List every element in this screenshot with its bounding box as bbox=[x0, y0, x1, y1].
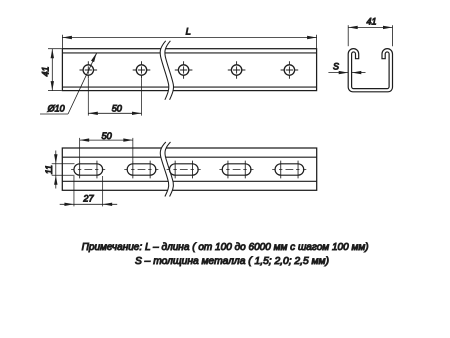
hole H4 bbox=[228, 61, 246, 79]
dimension 50 (top view) bbox=[88, 79, 141, 116]
top view inner flange line upper bbox=[62, 52, 316, 54]
dimension 11 (slot height) bbox=[44, 151, 75, 189]
slot S3 bbox=[167, 161, 201, 179]
dimension L bbox=[62, 26, 316, 48]
side view inner line lower bbox=[62, 180, 316, 182]
dimension 27 (slot length) bbox=[60, 176, 117, 206]
side view break lines bbox=[160, 142, 173, 197]
slot S5 bbox=[272, 161, 306, 179]
slot S1 bbox=[71, 161, 105, 179]
side view inner line upper bbox=[62, 156, 316, 158]
svg-text:50: 50 bbox=[112, 104, 123, 114]
svg-text:L: L bbox=[186, 26, 191, 37]
svg-text:50: 50 bbox=[102, 131, 113, 141]
hole H5 bbox=[281, 61, 299, 79]
svg-text:27: 27 bbox=[82, 194, 94, 204]
svg-text:41: 41 bbox=[367, 17, 377, 27]
cross-section C-channel bbox=[348, 49, 392, 92]
hole H2 bbox=[133, 61, 151, 79]
dimension 41 (cross-section) bbox=[348, 17, 392, 47]
dimension S (wall thickness) bbox=[328, 62, 365, 75]
svg-text:11: 11 bbox=[44, 165, 54, 174]
dimension 50 (side view) bbox=[80, 131, 133, 161]
svg-text:Примечание: L – длина ( от 100: Примечание: L – длина ( от 100 до 6000 м… bbox=[82, 242, 369, 253]
slot S2 bbox=[124, 161, 158, 179]
top view bar outline bbox=[62, 49, 316, 91]
hole H1 bbox=[80, 61, 98, 79]
top view inner flange line lower bbox=[62, 86, 316, 88]
top view break lines bbox=[160, 41, 173, 100]
leader and label Ø10 bbox=[40, 53, 97, 114]
svg-text:S: S bbox=[333, 62, 339, 72]
svg-text:S – толщина металла ( 1,5; 2,0: S – толщина металла ( 1,5; 2,0; 2,5 мм) bbox=[135, 256, 329, 267]
dimension 41 (left of top view) bbox=[41, 49, 62, 91]
svg-text:41: 41 bbox=[41, 66, 51, 76]
side view bar outline bbox=[62, 148, 316, 190]
break gap mask (top view) bbox=[160, 41, 173, 100]
hole H3 bbox=[175, 61, 193, 79]
break gap mask (side view) bbox=[160, 142, 173, 197]
svg-text:Ø10: Ø10 bbox=[47, 104, 65, 114]
slot S4 bbox=[219, 161, 253, 179]
